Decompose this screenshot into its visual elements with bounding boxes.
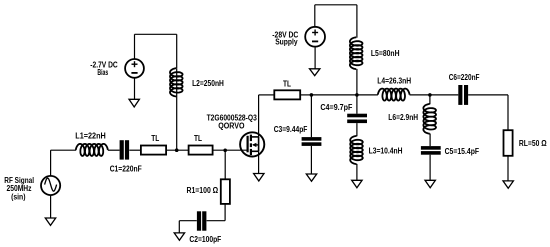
svg-text:TL: TL: [194, 134, 202, 143]
voltage source V1 (RF Signal 250MHz sin): [41, 176, 60, 195]
wire L2 top to bias rail: [176, 34, 178, 68]
wire node down to C4: [356, 95, 358, 114]
svg-text:R1=100 Ω: R1=100 Ω: [187, 186, 219, 195]
capacitor C6: [458, 85, 468, 105]
svg-text:L2=250nH: L2=250nH: [192, 79, 224, 88]
transmission line TL3: [274, 90, 300, 99]
wire rail down to V3: [314, 5, 316, 27]
wire V1 top to rail: [50, 150, 52, 176]
wire drain rail to TL3: [259, 94, 275, 96]
wire supply top rail: [315, 4, 357, 6]
wire TL3 to C3 node: [300, 94, 311, 96]
ground below V2: [129, 99, 139, 107]
junction node L4-L6-C6: [428, 93, 432, 97]
svg-text:TL: TL: [151, 134, 159, 143]
transmission line TL2: [189, 146, 213, 155]
capacitor C1: [120, 140, 130, 159]
wire C3 to ground: [310, 146, 312, 174]
svg-text:C2=100pF: C2=100pF: [189, 235, 221, 244]
svg-text:L5=80nH: L5=80nH: [371, 49, 400, 58]
wire L3 to ground: [356, 164, 358, 180]
ground below RL: [503, 181, 513, 188]
wire C5 to ground: [429, 155, 431, 181]
wire node down to L6: [429, 95, 431, 104]
junction node drain-C3: [310, 93, 314, 97]
voltage source V3 (-28V DC Supply): [305, 27, 325, 47]
capacitor C3: [302, 137, 322, 146]
wire C1 to TL1: [129, 149, 141, 151]
wire V1 bottom: [50, 195, 52, 218]
wire supply node to L4: [357, 94, 378, 96]
svg-text:C5=15.4pF: C5=15.4pF: [445, 147, 480, 156]
wire C4 to L3: [356, 123, 358, 136]
svg-text:C1=220nF: C1=220nF: [110, 165, 142, 174]
wire corner to C2: [207, 220, 226, 222]
wire rail down to L5: [356, 5, 358, 38]
label -28V DC Supply: [272, 30, 298, 46]
label RF Signal 250MHz (sin): [4, 176, 34, 201]
capacitor C4: [347, 114, 367, 123]
transmission line TL1: [141, 146, 166, 155]
svg-text:L3=10.4nH: L3=10.4nH: [369, 147, 403, 156]
wire node down to C3: [310, 95, 312, 137]
wire rail down to V2: [134, 34, 136, 59]
inductor L4: [378, 89, 410, 101]
inductor L2: [170, 68, 183, 96]
svg-text:L1=22nH: L1=22nH: [75, 132, 106, 141]
svg-text:L4=26.3nH: L4=26.3nH: [377, 76, 411, 85]
label T2G6000528-Q3 QORVO: [207, 114, 258, 131]
wire source down: [258, 151, 260, 173]
wire node to C6: [430, 94, 458, 96]
wire L1 to C1: [108, 149, 120, 151]
resistor R1: [221, 179, 230, 204]
ground below C2: [174, 233, 184, 240]
svg-text:C3=9.44pF: C3=9.44pF: [274, 125, 308, 134]
ground below V1: [45, 218, 55, 225]
wire C2 to ground corner: [179, 220, 197, 222]
svg-text:C4=9.7pF: C4=9.7pF: [320, 103, 352, 112]
resistor RL (load): [504, 130, 513, 156]
wire R1 to corner: [224, 204, 226, 221]
ground below C5: [425, 180, 435, 187]
wire drain up to rail: [258, 95, 260, 137]
wire corner down to RL: [507, 95, 509, 130]
junction node gate-R1 tee: [223, 149, 227, 153]
wire down to ground: [178, 221, 180, 233]
ground below Q1 source: [254, 174, 264, 182]
wire V3 bottom: [314, 47, 316, 69]
svg-text:Bias: Bias: [97, 68, 108, 77]
svg-text:L6=2.9nH: L6=2.9nH: [388, 113, 418, 122]
wire junction up to L2: [176, 69, 178, 151]
wire RL to ground: [507, 156, 509, 181]
wire junction down to R1: [224, 150, 226, 179]
transistor Q1 T2G6000528-Q3 (GaN FET): [240, 132, 264, 156]
label -2.7V DC Bias: [90, 61, 118, 78]
ground below V3: [310, 69, 320, 76]
wire L5 to rail node: [356, 69, 358, 95]
ground below C3: [306, 174, 316, 181]
wire C3 node to supply node: [311, 94, 357, 96]
capacitor C5: [421, 146, 441, 155]
inductor L6: [423, 104, 436, 134]
svg-text:(sin): (sin): [11, 192, 26, 201]
junction node gate-bias tee: [175, 148, 179, 152]
wire V2 bottom: [134, 78, 136, 100]
wire TL1 to TL2: [166, 149, 189, 151]
voltage source V2 (-2.7V DC Bias): [125, 59, 144, 78]
capacitor C2: [197, 211, 207, 230]
svg-text:TL: TL: [283, 80, 291, 89]
junction node supply-C4: [355, 93, 359, 97]
svg-text:RL=50 Ω: RL=50 Ω: [519, 139, 547, 148]
wire bias top rail: [135, 33, 177, 35]
svg-text:QORVO: QORVO: [218, 121, 244, 130]
wire L6 to C5: [429, 134, 431, 147]
inductor L1: [76, 144, 108, 156]
wire C6 to RL corner: [468, 94, 508, 96]
ground below L3: [352, 180, 362, 187]
wire L4 to L6 node: [410, 94, 430, 96]
inductor L5: [350, 37, 363, 69]
wire TL2 to gate: [213, 149, 248, 151]
svg-text:Supply: Supply: [275, 37, 298, 46]
inductor L3: [350, 136, 363, 164]
wire rail to L1: [51, 149, 77, 151]
svg-text:C6=220nF: C6=220nF: [449, 73, 480, 82]
